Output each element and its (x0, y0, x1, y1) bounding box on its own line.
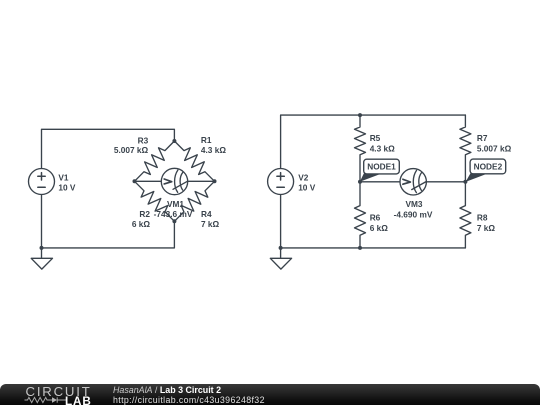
svg-text:R8: R8 (477, 213, 488, 223)
svg-text:V2: V2 (298, 172, 309, 182)
ground left circuit (31, 248, 52, 269)
node top rail junction (358, 113, 362, 117)
voltmeter VM3 (400, 169, 426, 195)
svg-text:6 kΩ: 6 kΩ (132, 219, 151, 229)
node flag NODE1 (360, 159, 400, 182)
footer bar (0, 384, 540, 405)
svg-text:R5: R5 (370, 133, 381, 143)
wire VM1 to bridge right node (188, 180, 215, 182)
svg-text:VM3: VM3 (405, 199, 422, 209)
node bottom rail junction (358, 246, 362, 250)
svg-text:NODE2: NODE2 (474, 162, 503, 172)
svg-text:NODE1: NODE1 (367, 162, 396, 172)
svg-text:R7: R7 (477, 133, 488, 143)
node flag NODE2 (466, 159, 506, 182)
node ground junction right (279, 246, 283, 250)
CircuitLab logo wordmark LAB (65, 396, 92, 405)
wire V2 top to top rail (281, 115, 466, 168)
wire bridge left node to VM1 (135, 180, 162, 182)
voltmeter VM1 (161, 168, 187, 194)
svg-text:7 kΩ: 7 kΩ (477, 223, 496, 233)
resistor R2 (135, 181, 175, 221)
svg-text:R3: R3 (138, 135, 149, 145)
wire V2 bottom to bottom rail (280, 195, 282, 248)
svg-text:VM1: VM1 (167, 199, 184, 209)
svg-text:R4: R4 (201, 209, 212, 219)
svg-text:5.007 kΩ: 5.007 kΩ (477, 143, 512, 153)
svg-text:5.007 kΩ: 5.007 kΩ (114, 145, 149, 155)
node bridge left (133, 179, 137, 183)
node NODE1 junction (358, 180, 362, 184)
node bridge bottom (172, 219, 176, 223)
svg-text:-743.6 mV: -743.6 mV (154, 209, 193, 219)
CircuitLab logo resistor-diode symbol (23, 395, 67, 405)
wire VM3 to NODE2 (427, 181, 466, 183)
footer title text (113, 386, 221, 395)
ground right circuit (270, 248, 291, 269)
resistor R3 (135, 141, 175, 181)
node bridge right (213, 179, 217, 183)
svg-text:R2: R2 (139, 209, 150, 219)
svg-text:4.3 kΩ: 4.3 kΩ (370, 143, 395, 153)
resistor R1 (174, 141, 214, 181)
junction node dots (40, 113, 468, 250)
svg-text:R6: R6 (370, 213, 381, 223)
node ground junction left (40, 246, 44, 250)
svg-text:6 kΩ: 6 kΩ (370, 223, 389, 233)
svg-text:V1: V1 (58, 172, 69, 182)
svg-text:10 V: 10 V (298, 182, 316, 192)
wire bottom rail right circuit (281, 247, 466, 249)
svg-text:R1: R1 (201, 135, 212, 145)
voltage source V1 (29, 169, 55, 195)
resistor R5 (355, 115, 366, 182)
voltage source V2 (268, 169, 294, 195)
wire V1 bottom to ground rail (41, 195, 43, 248)
wire V1 top to bridge top node (42, 129, 175, 168)
resistor R7 (460, 115, 471, 182)
svg-text:10 V: 10 V (58, 182, 76, 192)
resistor R6 (355, 182, 366, 248)
svg-text:-4.690 mV: -4.690 mV (394, 210, 433, 220)
CircuitLab logo wordmark CIRCUIT (26, 385, 92, 398)
footer url text (113, 396, 265, 405)
wire NODE1 to VM3 (360, 181, 400, 183)
node NODE2 junction (463, 180, 467, 184)
svg-text:7 kΩ: 7 kΩ (201, 219, 220, 229)
resistor R4 (174, 181, 214, 221)
wire bottom rail left circuit (42, 221, 175, 248)
resistor R8 (460, 182, 471, 248)
svg-text:4.3 kΩ: 4.3 kΩ (201, 145, 226, 155)
node bridge top (172, 139, 176, 143)
